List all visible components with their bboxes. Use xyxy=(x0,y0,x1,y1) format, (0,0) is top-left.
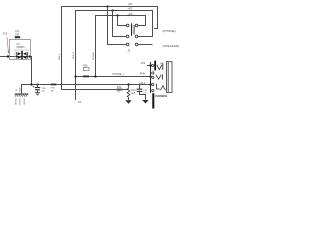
svg-text:PESD5: PESD5 xyxy=(17,46,26,49)
wire input net at left edge through D7 down to ground bus L2 xyxy=(0,57,32,85)
svg-text:C34: C34 xyxy=(143,90,148,92)
junction dot at arrow target xyxy=(7,55,9,57)
jack J5 row3 contacts xyxy=(126,43,129,46)
jack J5 row2 contacts xyxy=(126,35,129,38)
junction dot L2 right xyxy=(149,83,151,85)
capacitor C34 xyxy=(139,85,141,89)
svg-text:J5: J5 xyxy=(127,49,130,53)
svg-text:R36: R36 xyxy=(83,65,88,68)
ESD diode array D7 xyxy=(21,51,23,60)
svg-text:+P1: +P1 xyxy=(128,2,133,6)
ground under C34 xyxy=(142,100,148,103)
svg-text:+P3: +P3 xyxy=(128,12,133,16)
jack J6 stub +P3 xyxy=(147,65,152,67)
svg-text:A3: A3 xyxy=(78,101,82,104)
svg-text:0R: 0R xyxy=(51,91,54,93)
junction dot L1 right xyxy=(149,75,151,77)
svg-text:+P3: +P3 xyxy=(140,61,145,65)
jack J6 spring contact V xyxy=(156,75,161,80)
svg-text:C36: C36 xyxy=(41,88,46,90)
svg-text:R19: R19 xyxy=(3,34,8,36)
jack J5 plug bars xyxy=(131,23,132,35)
ESD suppressor D7 outer box xyxy=(10,40,31,60)
jack J5 row1 contacts xyxy=(126,24,129,27)
junction dot L1 mid xyxy=(94,75,96,77)
jack J6 contact circles xyxy=(152,64,154,66)
svg-text:12: 12 xyxy=(16,88,18,91)
ferrite bead pad xyxy=(15,36,20,38)
ground under C36 xyxy=(35,93,40,96)
red annotation arrow xyxy=(7,37,8,51)
connector ground bar bottom-left xyxy=(15,93,29,95)
svg-text:+P2: +P2 xyxy=(128,6,133,10)
net C wire: top line 3 to jack row1 right xyxy=(96,16,146,77)
jack J6 sleeve xyxy=(167,62,173,93)
junction dot net B xyxy=(111,9,113,11)
svg-text:10u: 10u xyxy=(143,93,147,95)
jack J5 entry wire row1 xyxy=(118,16,127,26)
junction dot net C xyxy=(116,14,118,16)
resistor R36 box xyxy=(83,67,89,70)
series resistor R30 on L3 xyxy=(117,88,122,90)
svg-text:SPK_R: SPK_R xyxy=(73,51,75,59)
junction dot L1 left xyxy=(74,75,76,77)
resistor R31 (zigzag) xyxy=(127,85,130,101)
jack J6 pin rail xyxy=(150,62,152,93)
svg-text:(SPEAKER): (SPEAKER) xyxy=(163,44,180,48)
svg-text:J4: J4 xyxy=(159,64,162,66)
junction dot J6 xyxy=(149,64,151,66)
jack J6 tip contact xyxy=(157,65,162,70)
jack J5 entry wire row3 xyxy=(108,7,127,45)
capacitor C36 xyxy=(37,85,39,88)
svg-text:AGND: AGND xyxy=(14,98,17,105)
svg-text:22: 22 xyxy=(117,91,120,93)
svg-text:(PHONE): (PHONE) xyxy=(163,29,176,33)
net name tag on L1 xyxy=(83,76,89,78)
junction dot C36 xyxy=(37,84,39,86)
jack J6 ring contact xyxy=(157,84,160,89)
svg-text:PHONE_L: PHONE_L xyxy=(113,73,125,76)
ground bus wire L2 xyxy=(22,85,151,94)
svg-text:SPK_L: SPK_L xyxy=(59,52,61,60)
ground under R31 xyxy=(125,100,131,103)
junction dot at D7 output xyxy=(29,55,31,57)
svg-text:GND: GND xyxy=(20,87,22,92)
ferrite tag on L2 xyxy=(51,84,56,86)
svg-text:R30: R30 xyxy=(117,87,122,89)
jack J4 plug shaft xyxy=(152,93,154,108)
net A wire: top line 1 down left side to bus L3 feeding R31 xyxy=(62,7,158,90)
net B wire: top line 2, right drop to jack row2, left drop to A3 flag xyxy=(76,11,153,101)
svg-text:1k5: 1k5 xyxy=(131,92,136,95)
junction dot D7 drop xyxy=(30,83,32,85)
audio bus wire L1 xyxy=(76,76,151,78)
svg-text:PHONES1: PHONES1 xyxy=(155,94,168,98)
svg-text:PHONE: PHONE xyxy=(93,52,95,60)
jack J5 entry wire row2 xyxy=(113,11,127,37)
ESD diode package box xyxy=(15,50,28,59)
svg-text:105: 105 xyxy=(15,33,20,36)
capacitor C36 plus sign xyxy=(33,86,35,88)
junction dot net A xyxy=(106,5,108,7)
svg-text:PHN: PHN xyxy=(140,72,146,76)
jack J6 plug bar xyxy=(154,61,156,71)
svg-text:10u: 10u xyxy=(41,91,45,93)
svg-text:FB1: FB1 xyxy=(51,88,56,90)
svg-text:DGND: DGND xyxy=(20,98,22,105)
junction dot R31 xyxy=(127,83,129,85)
svg-text:SGND: SGND xyxy=(24,98,26,105)
svg-text:+PL3: +PL3 xyxy=(139,81,146,85)
